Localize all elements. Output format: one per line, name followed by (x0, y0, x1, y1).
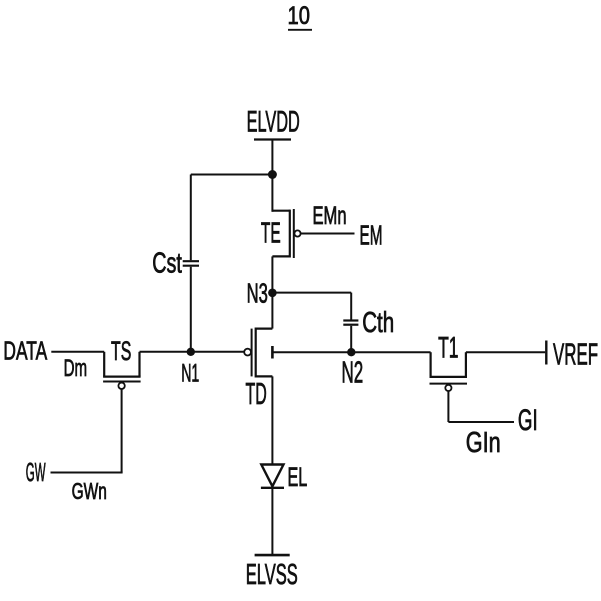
svg-text:TD: TD (246, 378, 267, 411)
svg-text:Cth: Cth (362, 307, 394, 339)
wire TS to N1 (140, 351, 191, 353)
svg-text:Dm: Dm (64, 355, 88, 382)
ELVDD terminal bar (254, 138, 291, 140)
wire N3 to Cth (272, 292, 351, 294)
node junction ELVDD/Cst (268, 170, 277, 179)
svg-text:EM: EM (360, 220, 383, 251)
wire T1 gate down (447, 391, 449, 422)
wire ELVDD stem (271, 140, 273, 175)
svg-text:T1: T1 (438, 332, 458, 365)
wire TS gate (121, 389, 123, 473)
VREF terminal bar (545, 341, 547, 365)
wire T1 gate to GI (448, 421, 514, 423)
diode EL (261, 465, 283, 487)
wire EL to ELVSS (271, 488, 273, 555)
svg-text:EL: EL (288, 461, 308, 492)
svg-text:N2: N2 (342, 356, 364, 389)
transistor TE (272, 210, 289, 212)
wire EM gate (301, 233, 355, 235)
transistor TD (256, 328, 273, 330)
svg-text:TE: TE (261, 217, 281, 249)
capacitor Cst (190, 175, 192, 261)
svg-text:GIn: GIn (466, 427, 501, 459)
svg-text:N3: N3 (247, 278, 268, 309)
svg-text:VREF: VREF (553, 337, 598, 372)
wire TD source down (271, 376, 273, 464)
ELVSS terminal bar (255, 554, 290, 557)
wire TD gate to N1 (191, 351, 245, 353)
wire GW horizontal (51, 472, 123, 474)
wire TE source to N3 (271, 256, 273, 292)
capacitor Cth (350, 293, 352, 320)
transistor T1 (430, 352, 432, 377)
svg-text:Cst: Cst (152, 247, 182, 279)
wire junction to Cst top (191, 174, 273, 176)
svg-text:GI: GI (518, 404, 538, 437)
wire DATA to TS (51, 351, 104, 353)
svg-text:ELVDD: ELVDD (247, 106, 300, 139)
svg-text:EMn: EMn (313, 202, 347, 230)
svg-text:GWn: GWn (72, 478, 107, 504)
underline of 10 (288, 29, 312, 31)
svg-text:GW: GW (26, 459, 46, 487)
wire junction to TE drain (271, 175, 273, 212)
node N3 (268, 289, 277, 298)
svg-text:N1: N1 (181, 360, 199, 388)
wire N2 to T1 (351, 351, 430, 353)
svg-text:DATA: DATA (3, 338, 47, 366)
wire T1 to VREF (466, 351, 545, 353)
svg-text:10: 10 (288, 2, 310, 30)
svg-text:ELVSS: ELVSS (246, 559, 298, 591)
transistor TS (103, 352, 105, 377)
wire TD bulk to N2 (272, 351, 351, 353)
node N2 (347, 348, 355, 356)
svg-text:TS: TS (111, 335, 131, 366)
wire N3 to TD drain (271, 293, 273, 329)
node N1 (187, 348, 195, 356)
